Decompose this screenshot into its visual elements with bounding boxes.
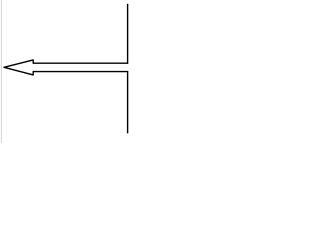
arrow: hollow left-pointing block arrow [4,60,128,75]
wire: top vertical segment [127,4,129,64]
canvas edge line (left) [1,0,2,143]
wire: bottom vertical segment [127,71,129,133]
